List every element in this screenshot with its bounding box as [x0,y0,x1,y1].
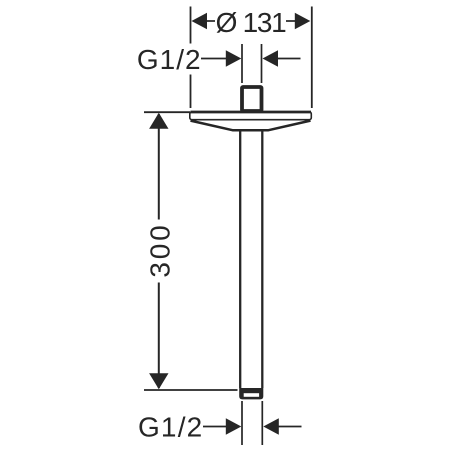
bottom thread fitting slot [244,393,259,397]
G1/2 bottom right arrow pointing left [263,418,279,434]
leader line from G1/2 bottom [203,426,227,428]
G1/2 bottom right tail line [278,426,302,428]
G1/2 top right tail line [277,58,301,60]
extension line left of top thread stub [241,44,243,83]
300 dimension bottom extension line [144,389,238,391]
leader line from G1/2 top [201,58,227,60]
extension line right of bottom thread [261,401,263,445]
svg-text:G1/2: G1/2 [137,44,202,75]
dimension line dia 131 left stub [206,20,215,22]
ceiling plate top edge thick line [191,111,312,114]
300 dimension up arrow [149,113,168,129]
extension line right of top thread stub [261,44,263,83]
300 dimension down arrow [149,373,168,389]
dimension line dia 131 left arrow [192,13,208,29]
bottom thread fitting body [239,388,263,399]
svg-text:G1/2: G1/2 [138,411,204,442]
dimension line dia 131 right stub [286,20,296,22]
pipe left wall [239,131,241,389]
300 dimension line lower segment [158,283,160,389]
threaded stub on top of ceiling plate [242,87,262,111]
extension line left of dia 131 dimension [190,7,192,109]
300 dimension top extension line [144,111,190,113]
dimension line dia 131 right arrow [295,13,311,29]
300 dimension line upper segment [158,114,160,220]
extension line right of dia 131 dimension [311,7,313,109]
ceiling plate skirt [191,121,311,131]
G1/2 bottom left arrow pointing right [226,418,242,434]
ceiling plate top bar [190,112,311,120]
extension line left of bottom thread [241,401,243,445]
white mask behind top G1/2 text [135,44,201,75]
svg-text:Ø 131: Ø 131 [216,7,287,38]
pipe right wall [261,131,263,389]
G1/2 top left arrow pointing right [226,50,242,66]
svg-text:300: 300 [144,223,175,278]
G1/2 top right arrow pointing left [263,50,279,66]
